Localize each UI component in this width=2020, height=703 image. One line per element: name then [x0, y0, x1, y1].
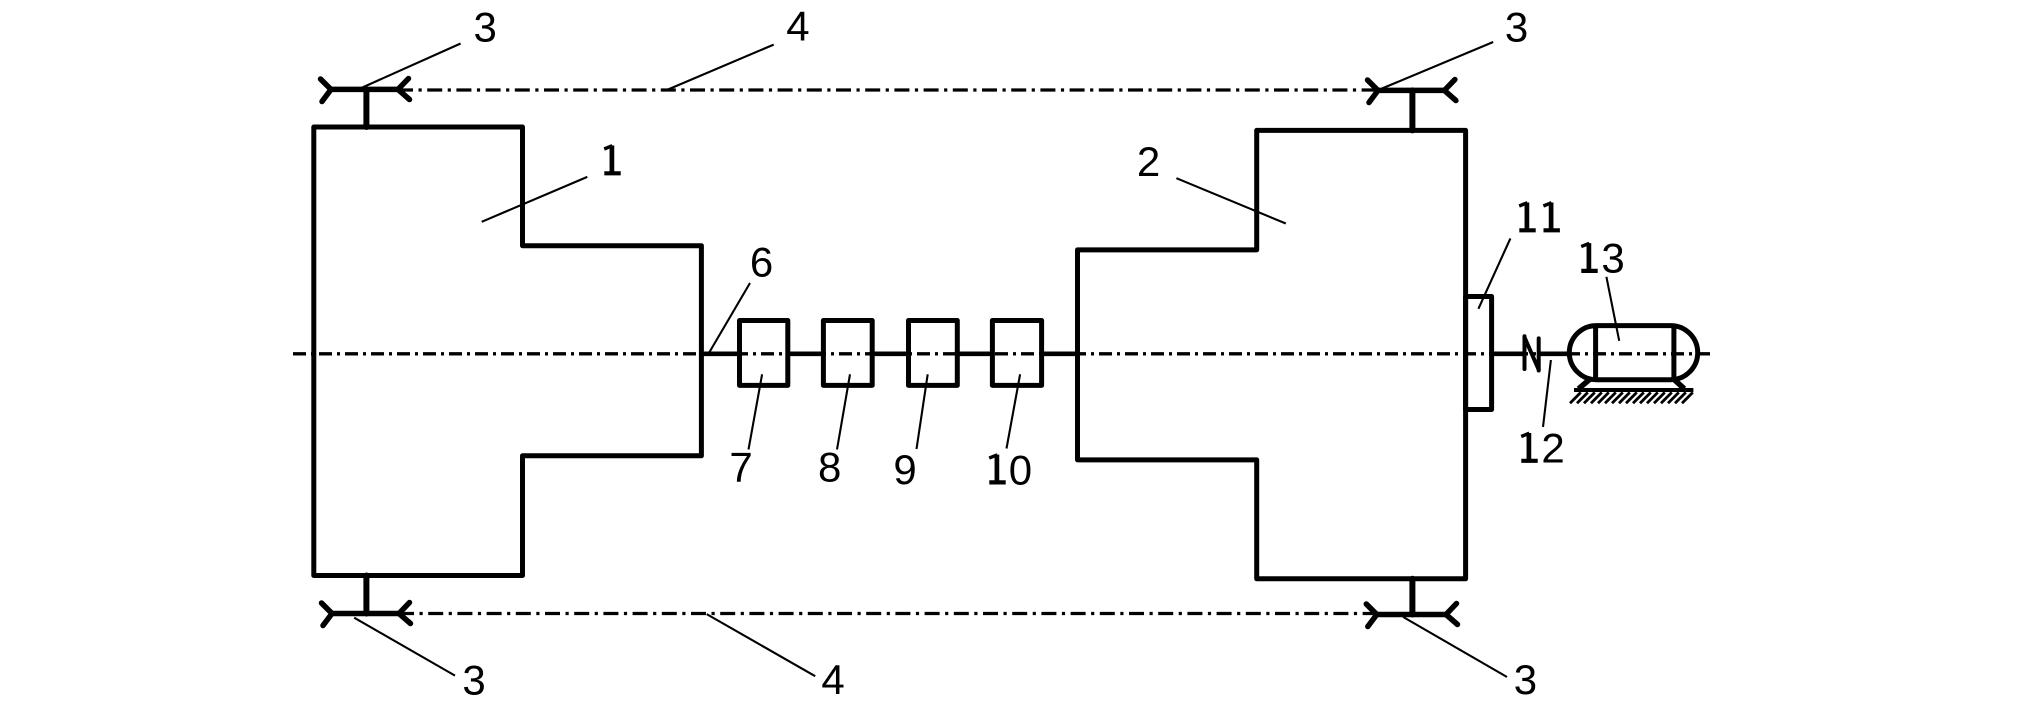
leader for label 1: [482, 177, 588, 222]
shaft segment casing1 to block 7: [701, 351, 739, 356]
label 11: [1519, 203, 1560, 231]
centerline (dash-dot axis): [293, 352, 1714, 355]
shaft segment block 7 to block 8: [788, 351, 824, 356]
leader for label 3 top-left: [359, 44, 461, 90]
leader for label 9: [917, 374, 928, 449]
leader for label 4 top: [668, 45, 774, 90]
support 3 top-left: [321, 79, 410, 128]
leader for label 8: [837, 374, 850, 449]
label 13: [1581, 235, 1624, 282]
svg-text:4: 4: [786, 3, 809, 50]
svg-text:4: 4: [821, 656, 844, 703]
coupling 12 (N-shaped flexible link): [1525, 336, 1539, 370]
svg-text:3: 3: [1601, 235, 1624, 282]
svg-text:3: 3: [1505, 4, 1528, 51]
svg-text:3: 3: [474, 4, 497, 51]
reference line 4 top (dash-dot): [398, 88, 1378, 91]
leader for label 3 bottom-right: [1403, 617, 1507, 677]
support 3 bottom-right: [1366, 579, 1457, 627]
svg-text:7: 7: [729, 444, 752, 491]
motor 13 left end line: [1593, 326, 1598, 380]
shaft segment block 9 to block 10: [957, 351, 992, 356]
coupling block 8: [823, 321, 872, 386]
svg-text:2: 2: [1541, 424, 1564, 471]
motor 13 (stadium body): [1569, 326, 1697, 380]
leader for label 3 top-right: [1382, 42, 1493, 89]
coupling block 9: [909, 321, 958, 386]
leader for label 13: [1606, 277, 1619, 341]
leader for label 3 bottom-left: [354, 618, 455, 676]
label 12: [1521, 424, 1564, 471]
leader for label 4 bottom: [707, 614, 816, 676]
svg-text:0: 0: [1009, 447, 1032, 494]
svg-text:6: 6: [750, 239, 773, 286]
support 3 top-right: [1368, 80, 1456, 131]
ground hatching: [1570, 392, 1693, 403]
shaft segment element 11 to coupling 12: [1492, 351, 1523, 356]
motor left foot: [1579, 378, 1592, 389]
svg-text:3: 3: [462, 657, 485, 703]
svg-text:8: 8: [818, 444, 841, 491]
shaft segment block 10 to casing 2: [1042, 351, 1078, 356]
coupling block 7: [740, 321, 788, 386]
shaft segment coupling 12 to motor 13: [1541, 351, 1570, 356]
support 3 bottom-left: [322, 576, 411, 626]
svg-text:3: 3: [1514, 656, 1537, 703]
label 1: [604, 146, 621, 174]
leader for label 6: [710, 283, 751, 352]
leader for label 2: [1176, 178, 1285, 223]
casing 2 (right stepped cylinder body): [1078, 130, 1466, 578]
coupling block 10: [992, 321, 1041, 386]
leader for label 7: [749, 374, 763, 449]
leader for label 11: [1478, 238, 1510, 308]
label 10: [989, 447, 1032, 494]
svg-text:9: 9: [893, 446, 916, 493]
casing 1 (left stepped cylinder body): [314, 127, 702, 576]
element 11 (flange on casing 2): [1466, 297, 1492, 410]
leader for label 10: [1007, 374, 1021, 448]
reference line 4 bottom (dash-dot): [399, 612, 1377, 615]
motor right foot: [1673, 378, 1685, 389]
shaft segment block 8 to block 9: [872, 351, 908, 356]
leader for label 12: [1543, 360, 1551, 427]
svg-text:2: 2: [1137, 138, 1160, 185]
ground line under motor: [1574, 388, 1693, 392]
motor 13 right end line: [1671, 326, 1676, 380]
